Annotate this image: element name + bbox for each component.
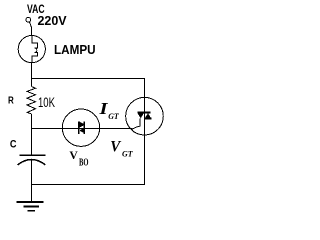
lamp LAMPU [18, 36, 45, 63]
svg-text:I: I [98, 99, 108, 118]
ground [17, 184, 44, 211]
capacitor C [18, 155, 46, 165]
svg-text:V: V [110, 138, 121, 155]
wire triac gate [131, 119, 140, 130]
svg-text:C: C [10, 138, 17, 150]
wire terminal to lamp [31, 28, 33, 36]
diac D1 [62, 109, 99, 146]
wire resistor to capacitor (node B junction) [31, 114, 33, 155]
node VAC terminal [26, 17, 32, 27]
svg-text:BO: BO [79, 157, 89, 168]
svg-text:V: V [69, 150, 78, 162]
label V_GT [110, 138, 133, 158]
svg-text:220V: 220V [38, 13, 67, 28]
wire triac vertical rail [144, 97, 146, 185]
svg-text:LAMPU: LAMPU [54, 43, 96, 57]
wire bottom horizontal [32, 184, 145, 186]
label I_GT [98, 99, 119, 121]
wire lamp to resistor (left rail, node A junction) [31, 63, 33, 87]
triac Q1 [126, 97, 164, 135]
wire node B to diac [32, 127, 133, 129]
svg-text:GT: GT [122, 149, 133, 159]
label V_BO [69, 150, 88, 168]
svg-text:GT: GT [108, 111, 119, 121]
svg-text:R: R [8, 96, 14, 107]
svg-text:10K: 10K [38, 95, 55, 110]
wire capacitor to bottom node [31, 160, 33, 185]
resistor R [27, 87, 36, 115]
wire top horizontal to triac [32, 78, 145, 97]
